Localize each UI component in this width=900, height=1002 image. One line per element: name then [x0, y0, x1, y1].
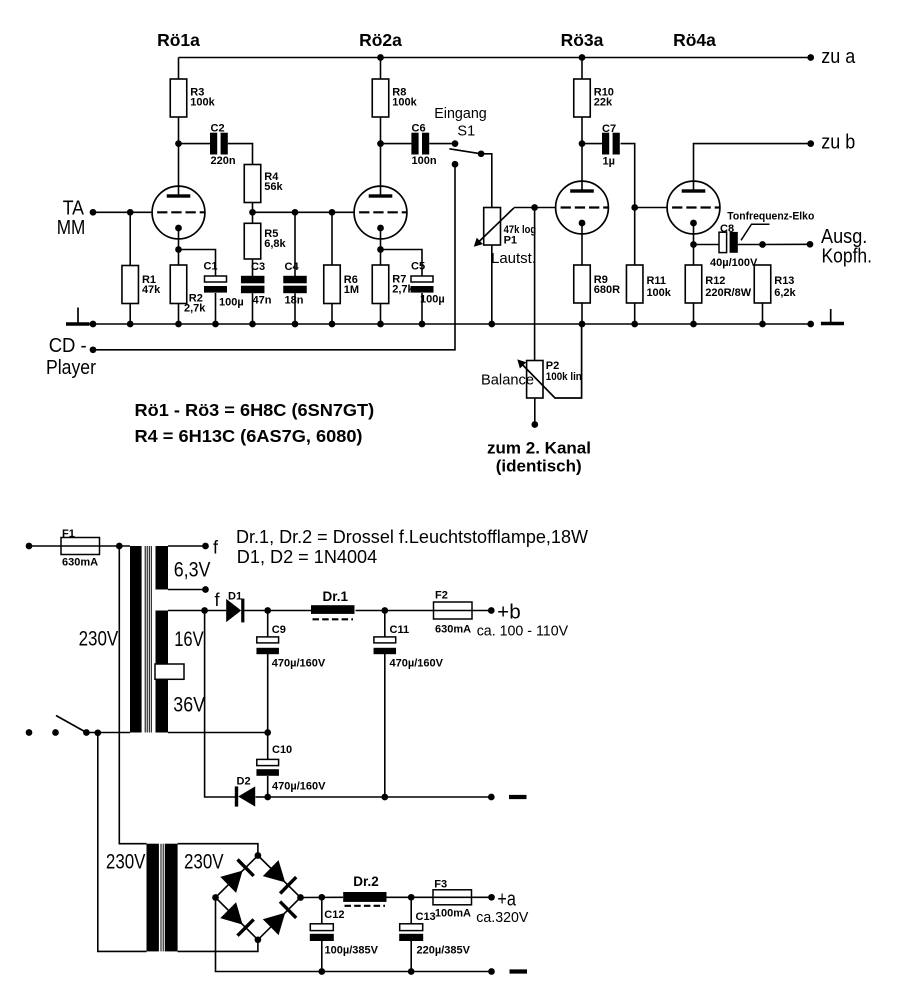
wire: switch down to Tr2 primary bottom [98, 733, 147, 952]
choke Dr.1 [311, 589, 355, 619]
node: rail P1 [488, 321, 495, 328]
wire: Tr2 secondary top to bridge [178, 844, 258, 856]
svg-text:100µ/385V: 100µ/385V [325, 945, 379, 957]
wire: bridge minus down and right [216, 898, 492, 972]
svg-text:680R: 680R [594, 284, 620, 296]
svg-text:100µ: 100µ [219, 296, 244, 308]
svg-text:230V: 230V [184, 851, 224, 874]
transformer Tr2 secondary winding [165, 844, 178, 952]
node: neg rail C10 [264, 794, 271, 801]
potentiometer P1 [484, 208, 536, 247]
svg-text:230V: 230V [79, 628, 119, 651]
node: rail R2 [175, 321, 182, 328]
node: R13 junction [759, 241, 766, 248]
node: rail R13 [759, 321, 766, 328]
wire: C13 to neg rail [410, 941, 412, 972]
wire: Dr.2 to F3 [387, 896, 434, 898]
wire: cathode to R2 [178, 250, 180, 266]
wire: CD input to S1 [93, 164, 455, 350]
triode Ro2a [354, 186, 407, 239]
svg-text:220µ/385V: 220µ/385V [417, 945, 471, 957]
svg-text:Dr.2: Dr.2 [353, 874, 379, 889]
terminal: mains N [26, 729, 33, 736]
capacitor C10 [256, 744, 326, 792]
svg-text:D1: D1 [228, 591, 242, 603]
wire: cathode to R7 [380, 250, 382, 266]
svg-text:C1: C1 [204, 261, 218, 273]
wire: zu a rail down to R8 [380, 58, 382, 80]
node: rail C5 [419, 321, 426, 328]
svg-text:1µ: 1µ [603, 156, 615, 168]
potentiometer P2 [527, 360, 582, 398]
svg-text:6,3V: 6,3V [174, 559, 211, 582]
label zu b [821, 132, 855, 154]
svg-text:16V: 16V [174, 628, 204, 651]
svg-text:220n: 220n [211, 155, 236, 167]
fuse F1 [61, 528, 100, 569]
node: C13 top junction [408, 894, 415, 901]
svg-text:Rö1 - Rö3 = 6H8C (6SN7GT): Rö1 - Rö3 = 6H8C (6SN7GT) [135, 400, 375, 420]
svg-text:R4 = 6H13C (6AS7G, 6080): R4 = 6H13C (6AS7G, 6080) [135, 426, 363, 446]
label 230V (Tr2 primary) [106, 851, 146, 874]
node: rail R6 [329, 321, 336, 328]
wire: C1 bottom [215, 293, 217, 324]
svg-text:630mA: 630mA [62, 556, 98, 568]
resistor R6 [324, 265, 359, 304]
capacitor C2 [210, 122, 236, 167]
wire: C13 drop [410, 897, 412, 923]
terminal: heater bottom [202, 586, 209, 593]
transformer Tr1 winding tap [155, 664, 184, 679]
wire: R7 bottom [380, 304, 382, 325]
node: C11 top junction [381, 607, 388, 614]
bridge rectifier frame [216, 856, 301, 940]
label zu a [821, 46, 856, 68]
label 36V [173, 694, 205, 717]
terminal: +b negative [488, 794, 495, 801]
wire: P1 bottom to rail [491, 245, 493, 324]
transformer Tr1 secondary 16V/36V winding [156, 611, 169, 733]
node: Ro1a plate / C2 junction [175, 140, 182, 147]
terminal: TA input [90, 209, 97, 216]
wire: grid bus to Ro2a [253, 211, 355, 213]
node: switch to Tr2 primary [94, 729, 101, 736]
ground symbol right [821, 309, 844, 324]
svg-text:D2: D2 [237, 775, 251, 787]
svg-text:R12: R12 [705, 275, 725, 287]
bridge diode left-top [220, 860, 253, 893]
svg-text:1M: 1M [344, 284, 359, 296]
wire: fuse junction down to Tr2 primary [119, 546, 146, 844]
capacitor C4 [283, 261, 307, 306]
capacitor C12 [310, 909, 379, 957]
terminal: zu a [807, 54, 814, 61]
node: neg rail C13 [408, 968, 415, 975]
svg-text:Lautst.: Lautst. [491, 251, 536, 267]
svg-text:zum 2. Kanal: zum 2. Kanal [487, 438, 591, 457]
terminal: zum 2. Kanal [531, 421, 538, 428]
label zum 2. Kanal [487, 438, 591, 475]
wire: R1 bottom [129, 304, 131, 325]
label Lautst. [491, 251, 536, 267]
triode Ro3a [556, 181, 609, 234]
node: C4 junction [292, 209, 299, 216]
node: Ro2a cathode junction [377, 246, 384, 253]
wire: C12 drop [321, 897, 323, 923]
label 16V [174, 628, 204, 651]
wire: 16V node down to D2 [205, 611, 236, 798]
svg-text:Balance: Balance [481, 373, 534, 389]
svg-text:6,8k: 6,8k [264, 238, 286, 250]
svg-text:Kopfh.: Kopfh. [822, 245, 873, 267]
svg-text:C9: C9 [272, 624, 286, 636]
svg-text:zu a: zu a [821, 46, 856, 68]
node: 16V junction [201, 607, 208, 614]
svg-text:ca.320V: ca.320V [476, 909, 528, 926]
label f (16V) [215, 590, 221, 610]
node: Ro1a cathode junction [175, 246, 182, 253]
svg-text:Dr.1, Dr.2 = Drossel f.Leuchts: Dr.1, Dr.2 = Drossel f.Leuchtstofflampe,… [236, 527, 588, 547]
resistor R2 [170, 265, 206, 315]
node: Ro3a plate-supply junction [579, 54, 586, 61]
wire: cathode junction to C8 [694, 244, 720, 246]
wire: 36V row [168, 732, 268, 734]
svg-text:D1, D2 = 1N4004: D1, D2 = 1N4004 [237, 547, 377, 567]
bridge diode bottom-right [263, 902, 296, 936]
label Tonfrequenz-Elko [727, 211, 814, 241]
svg-text:C6: C6 [412, 122, 426, 134]
wire: C12 to neg rail [321, 941, 323, 972]
wire: R9 bottom [581, 303, 583, 324]
label Ausg. Kopfh. [821, 226, 872, 267]
svg-text:C7: C7 [602, 123, 616, 135]
wire: C8 to output node [738, 244, 763, 246]
svg-text:2,7k: 2,7k [184, 303, 206, 315]
svg-text:F3: F3 [434, 878, 447, 890]
node: rail R7 [377, 321, 384, 328]
svg-text:100k: 100k [646, 287, 671, 299]
wire: 16V to D1 [168, 610, 226, 612]
capacitor C6 [411, 122, 436, 167]
label 6,3V [174, 559, 211, 582]
wire: R5 to C3 [252, 259, 254, 276]
svg-text:47k: 47k [142, 284, 161, 296]
svg-text:Rö2a: Rö2a [359, 30, 402, 50]
label minus (+a) [510, 969, 528, 973]
wire: R13 bottom [762, 303, 764, 324]
capacitor C3 [241, 261, 272, 306]
svg-text:100k: 100k [190, 97, 215, 109]
wire: plate to C7 [582, 143, 602, 145]
wire: 6.3V top to f [168, 545, 206, 547]
wire: R3 to Ro1a anode [178, 117, 180, 196]
svg-text:100n: 100n [412, 155, 437, 167]
wire: negative rail of +b [268, 796, 492, 798]
svg-text:C10: C10 [272, 744, 292, 756]
svg-text:C13: C13 [416, 911, 436, 923]
wire: +a supply rail (zu a) [179, 57, 811, 59]
wire: Ro3a cathode to R9 [581, 223, 583, 265]
resistor R13 [754, 265, 796, 303]
diode D2 [235, 775, 255, 806]
resistor R1 [122, 266, 161, 304]
svg-text:C11: C11 [390, 624, 410, 636]
capacitor C1 [204, 261, 244, 309]
node: rail C1 [212, 321, 219, 328]
wire: grid node to Ro4a [635, 207, 667, 209]
wire: cathode to R12 [693, 245, 695, 266]
label minus (+b) [509, 795, 527, 799]
wire: TA input to Ro1a grid [93, 211, 152, 213]
svg-text:22k: 22k [594, 97, 613, 109]
node: rail terminal near input [90, 321, 97, 328]
node: rail R12 [690, 321, 697, 328]
resistor R10 [574, 79, 614, 117]
wire: R2 bottom [178, 304, 180, 325]
svg-text:MM: MM [57, 217, 86, 239]
svg-text:100µ: 100µ [420, 293, 445, 305]
capacitor C8 [710, 223, 758, 269]
label Ro2a [359, 30, 402, 50]
switch S1 pole [478, 150, 485, 157]
wire: C9 to 36V node [267, 654, 269, 733]
svg-text:F1: F1 [62, 528, 75, 540]
transformer Tr2 core [161, 844, 163, 952]
svg-text:100mA: 100mA [435, 908, 471, 920]
svg-text:Rö3a: Rö3a [561, 30, 604, 50]
svg-text:56k: 56k [264, 181, 283, 193]
switch S1 lever [449, 149, 481, 154]
triode Ro4a [667, 181, 720, 234]
node: Ro3a plate / C7 junction [579, 140, 586, 147]
switch S1 contact from C6 [452, 140, 459, 147]
terminal: mains L [26, 543, 33, 550]
terminal: zu b [807, 140, 814, 147]
node: neg rail C11 [381, 794, 388, 801]
wire: Tr2 secondary bottom to bridge [178, 940, 258, 952]
switch S1 contact from CD [452, 161, 459, 168]
svg-text:6,2k: 6,2k [774, 287, 796, 299]
switch mains pole [83, 729, 90, 736]
wire: Dr.1 to F2 [356, 610, 434, 612]
svg-text:Eingang: Eingang [434, 106, 487, 122]
wire: bridge to C12 [301, 896, 344, 898]
wire: Ro4a cathode lead [693, 223, 695, 245]
switch mains contact [52, 729, 59, 736]
node: rail R11 [631, 321, 638, 328]
wire: C11 to neg rail [384, 654, 386, 797]
triode Ro1a [152, 186, 205, 239]
wire: P2 bottom to 2nd channel [534, 398, 536, 425]
wire: C3 bottom [252, 293, 254, 324]
wire: R11 bottom [634, 303, 636, 324]
svg-text:470µ/160V: 470µ/160V [272, 658, 326, 670]
wire: P1 wiper to Ro3a grid [514, 207, 556, 209]
transformer Tr1 secondary 6.3V winding [156, 546, 169, 590]
svg-text:+b: +b [497, 601, 521, 623]
svg-text:S1: S1 [457, 123, 475, 139]
wire: zu a rail down to R3 [178, 58, 180, 80]
transformer Tr2 primary winding [147, 844, 159, 952]
wire: C9 junction to Dr.1 [268, 610, 313, 612]
svg-text:Dr.1: Dr.1 [323, 589, 349, 604]
label TA MM [57, 198, 86, 240]
svg-text:C8: C8 [720, 223, 734, 235]
node: Ro4a cathode junction [690, 241, 697, 248]
capacitor C7 [602, 123, 620, 168]
terminal: heater f top [202, 543, 209, 550]
wire: plate to C2 [179, 143, 211, 145]
node: bridge plus [297, 894, 304, 901]
svg-text:C5: C5 [411, 261, 425, 273]
transformer Tr1 core [145, 546, 151, 733]
switch mains lever [56, 716, 86, 733]
node: bridge AC bottom [255, 936, 262, 943]
wire: F1 to transformer [100, 545, 131, 547]
wire: ground rail [90, 323, 811, 325]
diode D1 [226, 591, 244, 623]
svg-text:(identisch): (identisch) [496, 457, 582, 476]
fuse F2 [434, 590, 473, 636]
svg-text:220R/8W: 220R/8W [705, 287, 751, 299]
wire: Ro1a cathode lead [178, 228, 180, 250]
wire: R10 to Ro3a anode [581, 117, 583, 191]
wire: Ro2a cathode lead [380, 228, 382, 250]
wire: R6 drop [331, 212, 333, 265]
wire: D2 to C10 node [255, 796, 267, 798]
choke Dr.2 [343, 874, 386, 906]
svg-text:ca. 100 - 110V: ca. 100 - 110V [477, 623, 568, 640]
wire: R12 bottom [693, 303, 695, 324]
capacitor C13 [399, 911, 470, 957]
label Ro3a [561, 30, 604, 50]
wire: R6 bottom [331, 304, 333, 325]
node: R4/R5 junction (Ro2a grid node) [249, 209, 256, 216]
wire: C9 drop [267, 611, 269, 638]
wire: C7 to Ro4a grid node [621, 144, 635, 208]
svg-text:630mA: 630mA [435, 623, 471, 635]
svg-text:Rö1a: Rö1a [157, 30, 200, 50]
wire: C4 drop [294, 212, 296, 276]
wire: F2 to +b [472, 610, 491, 612]
svg-text:100k: 100k [392, 97, 417, 109]
resistor R12 [685, 265, 751, 303]
resistor R5 [244, 223, 286, 259]
svg-text:40µ/100V: 40µ/100V [710, 257, 758, 269]
transformer Tr1 primary winding [130, 546, 142, 733]
bridge diode left-bottom [220, 902, 253, 935]
capacitor C11 [374, 624, 444, 670]
svg-text:P1: P1 [504, 235, 517, 247]
label Ro1a [157, 30, 200, 50]
label +b [497, 601, 521, 623]
wire: C4 bottom [294, 293, 296, 324]
svg-text:C3: C3 [251, 261, 265, 273]
wire: cathode junction to C1 [179, 250, 216, 277]
node: neg rail C12 [318, 968, 325, 975]
resistor R3 [170, 79, 215, 117]
wire: 6.3V bottom [168, 589, 206, 591]
node: P2 branch on grid wire [531, 204, 538, 211]
node: rail R1 [127, 321, 134, 328]
svg-text:R11: R11 [646, 275, 666, 287]
label Balance [481, 373, 534, 389]
terminal: +a negative [488, 968, 495, 975]
node: C9 top junction [264, 607, 271, 614]
wire: Ro4a anode to zu b [694, 144, 811, 191]
node: rail C4 [292, 321, 299, 328]
wire: switch to Tr1 primary bottom [86, 732, 130, 734]
svg-text:C2: C2 [211, 122, 225, 134]
node: bridge minus [212, 894, 219, 901]
svg-text:47n: 47n [253, 295, 272, 307]
wire: zu a rail down to R10 [581, 58, 583, 80]
wire: grid node down to R11 [634, 208, 636, 266]
terminal: +a [488, 894, 495, 901]
terminal: +b [488, 607, 495, 614]
terminal: rail right end [807, 321, 814, 328]
node: Ro4a grid node [631, 204, 638, 211]
svg-text:+a: +a [497, 889, 516, 911]
label ca. 100 - 110V [477, 623, 568, 640]
terminal: CD input [90, 346, 97, 353]
svg-text:Tonfrequenz-Elko: Tonfrequenz-Elko [727, 211, 814, 223]
svg-text:Rö4a: Rö4a [673, 30, 716, 50]
ground symbol left [66, 308, 90, 325]
label 230V (Tr2 secondary) [184, 851, 224, 874]
capacitor C5 [411, 261, 445, 306]
resistor R4 [244, 165, 283, 203]
wire: D1 to C9 [244, 610, 267, 612]
svg-text:F2: F2 [435, 590, 448, 602]
node: Ro2a plate-supply junction [377, 54, 384, 61]
wire: grid node down to P2 [534, 208, 536, 361]
label tube legend [135, 400, 375, 446]
svg-text:100k lin: 100k lin [546, 371, 582, 383]
label Eingang / S1 [434, 106, 487, 139]
resistor R9 [574, 265, 620, 303]
svg-text:CD -: CD - [49, 335, 87, 357]
svg-text:R13: R13 [774, 275, 794, 287]
wire: C10 to neg rail [267, 776, 269, 797]
node: Ro2a plate / C6 junction [377, 140, 384, 147]
node: C12 top junction [318, 894, 325, 901]
terminal: Ausg. Kopfh. [807, 241, 814, 248]
svg-text:36V: 36V [173, 694, 205, 717]
node: primary top junction [116, 543, 123, 550]
label choke legend [236, 527, 588, 567]
wire: S1 pole to P1 [481, 154, 492, 208]
svg-text:C4: C4 [285, 261, 300, 273]
capacitor C9 [256, 624, 325, 670]
svg-text:230V: 230V [106, 851, 146, 874]
resistor R7 [372, 265, 414, 304]
svg-text:Player: Player [46, 357, 96, 379]
node: 36V / C9 / C10 junction [264, 729, 271, 736]
wire: R4 to junction [252, 203, 254, 224]
fuse F3 [433, 878, 472, 919]
wire: Ro2a cathode junction to C5 [381, 250, 423, 277]
label +a [497, 889, 516, 911]
resistor R11 [626, 265, 671, 303]
resistor R8 [372, 79, 417, 117]
node: R1 junction [127, 209, 134, 216]
wire: C10 drop [267, 733, 269, 760]
svg-text:470µ/160V: 470µ/160V [390, 658, 444, 670]
svg-text:470µ/160V: 470µ/160V [272, 780, 326, 792]
wire: mains to F1 [29, 545, 61, 547]
wire: plate to C6 [381, 143, 412, 145]
